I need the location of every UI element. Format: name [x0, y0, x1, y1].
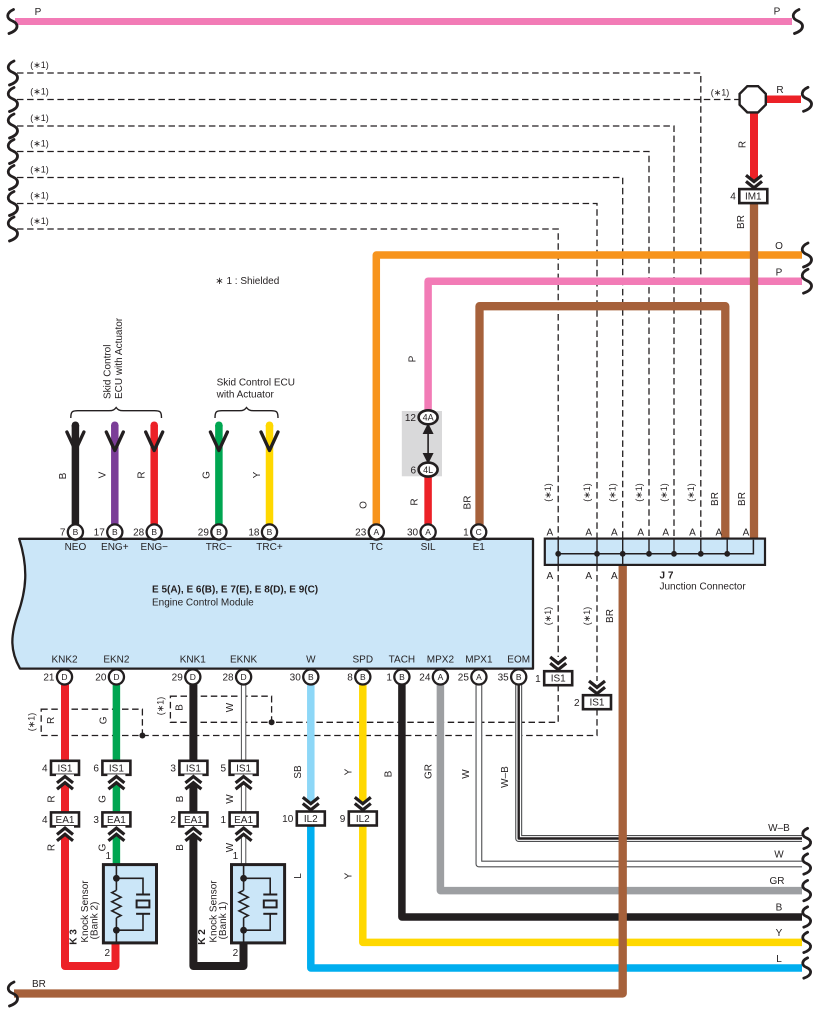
svg-text:(∗1): (∗1) [608, 483, 618, 502]
svg-text:(∗1): (∗1) [543, 607, 553, 626]
connector EA1 pin 1 [230, 812, 258, 826]
svg-text:D: D [190, 672, 196, 682]
chevron into IS1-1 [549, 656, 567, 672]
connector IL2 pin 9 [349, 812, 377, 826]
pin 1(B) TACH [394, 669, 409, 684]
svg-text:IS1: IS1 [109, 763, 124, 774]
svg-text:(Bank 2): (Bank 2) [90, 902, 101, 940]
svg-text:23: 23 [355, 528, 367, 539]
svg-text:Junction Connector: Junction Connector [660, 582, 747, 593]
svg-text:B: B [360, 672, 366, 682]
pin 20(D) EKN2 [109, 669, 124, 684]
svg-text:Skid Control: Skid Control [102, 345, 113, 399]
svg-text:EKNK: EKNK [230, 655, 258, 666]
break symbol right [803, 907, 811, 927]
wire B from TACH [402, 685, 802, 918]
wire G EKN2 to knock sensor K3 [113, 685, 121, 867]
break symbol left dashed [8, 166, 17, 190]
wire BR from E1 to J7 [480, 306, 726, 538]
svg-text:3: 3 [170, 763, 176, 774]
svg-text:P: P [774, 7, 781, 18]
break symbol right [803, 854, 811, 874]
svg-text:E1: E1 [473, 542, 486, 553]
connector EA1 pin 4 [51, 812, 79, 826]
svg-text:B: B [112, 527, 118, 537]
wire Y TRC+ [266, 425, 274, 525]
chevron below EA1 pin 1 [235, 826, 253, 841]
arrowhead wire start [210, 432, 227, 451]
svg-text:IS1: IS1 [236, 763, 251, 774]
svg-text:B: B [308, 672, 314, 682]
wire W from MPX1 [479, 685, 802, 865]
shield box around KNK1/EKNK wires [170, 696, 271, 722]
svg-text:1: 1 [463, 528, 469, 539]
svg-text:W: W [225, 702, 236, 712]
svg-text:Y: Y [344, 768, 355, 775]
wire R from 4L to SIL [424, 474, 432, 525]
svg-text:(∗1): (∗1) [634, 483, 644, 502]
connector EA1 pin 3 [102, 812, 130, 826]
svg-text:12: 12 [405, 413, 417, 424]
svg-text:R: R [776, 85, 783, 96]
svg-text:7: 7 [60, 528, 66, 539]
wire W-B from EOM [519, 685, 802, 839]
connector IS1 pin 2 [583, 695, 611, 709]
svg-text:B: B [516, 672, 522, 682]
wire B KNK1 to knock sensor K2 [193, 685, 243, 967]
svg-text:G: G [97, 795, 108, 803]
break symbol left dashed [8, 192, 17, 216]
svg-text:5: 5 [221, 763, 227, 774]
svg-text:IS1: IS1 [186, 763, 201, 774]
wire shield drain to connector IS1-2 [596, 565, 598, 681]
svg-text:B: B [267, 527, 273, 537]
break symbol right P top [793, 10, 802, 34]
svg-text:A: A [637, 528, 644, 539]
connector IL2 pin 10 [297, 812, 325, 826]
svg-text:R: R [410, 498, 421, 505]
pin 29(D) KNK1 [185, 669, 200, 684]
svg-text:(∗1): (∗1) [30, 113, 49, 123]
pin 24(A) MPX2 [433, 669, 448, 684]
wire O from TC [376, 255, 802, 525]
svg-text:29: 29 [198, 528, 210, 539]
connector IM1 pin 4 [739, 189, 767, 203]
svg-text:EA1: EA1 [56, 815, 75, 826]
svg-text:(∗1): (∗1) [156, 697, 166, 716]
break symbol left dashed [8, 88, 17, 112]
svg-text:(∗1): (∗1) [27, 713, 37, 732]
svg-text:24: 24 [419, 673, 431, 684]
svg-text:(∗1): (∗1) [659, 483, 669, 502]
svg-text:D: D [113, 672, 119, 682]
connector IS1 pin 6 [102, 761, 130, 775]
svg-text:G: G [97, 843, 108, 851]
svg-text:EA1: EA1 [184, 815, 203, 826]
wire P battery top [15, 18, 792, 25]
svg-text:BR: BR [710, 492, 721, 506]
svg-text:(∗1): (∗1) [582, 483, 592, 502]
break symbol left BR bottom [8, 982, 17, 1006]
svg-text:GR: GR [770, 876, 785, 887]
pin 28(B) ENG&#8722; [147, 524, 162, 539]
svg-text:(∗1): (∗1) [30, 87, 49, 97]
svg-text:6: 6 [93, 763, 99, 774]
svg-text:4: 4 [42, 815, 48, 826]
chevron into IM1 [745, 174, 763, 190]
svg-text:9: 9 [340, 814, 346, 825]
svg-text:IS1: IS1 [589, 698, 604, 709]
svg-text:1: 1 [221, 815, 227, 826]
svg-text:O: O [775, 241, 783, 252]
svg-text:Y: Y [252, 471, 263, 478]
svg-text:TRC−: TRC− [206, 542, 233, 553]
svg-text:A: A [438, 672, 444, 682]
brace Skid Control ECU with Actuator (left) [71, 408, 162, 419]
svg-text:A: A [611, 528, 618, 539]
svg-text:B: B [175, 844, 186, 851]
pin 18(B) TRC+ [262, 524, 277, 539]
svg-text:W: W [225, 842, 236, 852]
wire R octagon to IM1 [750, 111, 758, 190]
connector IS1 pin 5 [230, 761, 258, 775]
pin 1(C) E1 [471, 524, 486, 539]
chevron below IS1 pin 6 [107, 774, 125, 789]
pin 30(A) SIL [421, 524, 436, 539]
wire B NEO [72, 425, 80, 525]
brace Skid Control ECU with Actuator (right) [215, 408, 278, 419]
arrowhead wire start [146, 432, 163, 451]
chevron below IS1 pin 3 [184, 774, 202, 789]
svg-text:2: 2 [170, 815, 176, 826]
svg-text:(∗1): (∗1) [711, 88, 730, 98]
arrowhead wire start [106, 432, 123, 451]
svg-text:L: L [776, 954, 782, 965]
svg-text:K 3: K 3 [69, 929, 80, 945]
break symbol left dashed [8, 114, 17, 138]
svg-text:KNK2: KNK2 [51, 655, 78, 666]
pin 30(B) W [303, 669, 318, 684]
connector IS1 pin 3 [179, 761, 207, 775]
break symbol right [803, 958, 811, 978]
shield terminal octagon [740, 86, 766, 112]
svg-text:W: W [774, 850, 784, 861]
wire V ENG+ [111, 425, 119, 525]
svg-text:IL2: IL2 [304, 814, 318, 825]
svg-text:20: 20 [95, 673, 107, 684]
svg-text:B: B [399, 672, 405, 682]
svg-text:R: R [738, 141, 749, 148]
svg-text:1: 1 [386, 673, 392, 684]
svg-text:A: A [585, 571, 592, 582]
svg-text:R: R [137, 471, 148, 478]
svg-text:TACH: TACH [389, 655, 415, 666]
svg-text:ENG+: ENG+ [101, 542, 129, 553]
arrowhead wire start [261, 432, 278, 451]
wire shield drain to connector IS1-1 [557, 565, 559, 657]
svg-text:30: 30 [290, 673, 302, 684]
svg-text:2: 2 [233, 948, 239, 959]
wire shield dashed line 4 [17, 152, 649, 539]
svg-text:Y: Y [344, 872, 355, 879]
pin 17(B) ENG+ [107, 524, 122, 539]
svg-text:MPX1: MPX1 [465, 655, 493, 666]
svg-text:KNK1: KNK1 [180, 655, 207, 666]
svg-text:P: P [35, 7, 42, 18]
svg-text:G: G [99, 716, 110, 724]
connector EA1 pin 2 [179, 812, 207, 826]
wire shield dashed line 3 [17, 126, 674, 539]
svg-text:B: B [216, 527, 222, 537]
svg-text:SPD: SPD [353, 655, 374, 666]
break symbol left dashed [8, 217, 17, 241]
svg-text:8: 8 [347, 673, 353, 684]
pin 7(B) NEO [68, 524, 83, 539]
svg-text:TRC+: TRC+ [256, 542, 283, 553]
svg-text:BR: BR [737, 492, 748, 506]
svg-text:R: R [47, 795, 58, 802]
wire shield dashed line 6 [17, 204, 597, 539]
svg-text:21: 21 [43, 673, 55, 684]
wire L below IL2 [311, 825, 802, 968]
svg-text:4A: 4A [423, 413, 434, 423]
chevron into IL2-9 [354, 797, 372, 813]
svg-text:30: 30 [407, 528, 419, 539]
wire R KNK2 to knock sensor K3 [65, 685, 116, 967]
wire R ENG- [150, 425, 158, 525]
shield box around KNK2/EKN2 wires [41, 709, 142, 735]
svg-text:1: 1 [535, 674, 541, 685]
svg-text:(∗1): (∗1) [30, 165, 49, 175]
knock sensor K3 (Bank 2) [103, 865, 156, 943]
svg-text:17: 17 [94, 528, 106, 539]
svg-text:(∗1): (∗1) [30, 191, 49, 201]
pin 8(B) SPD [355, 669, 370, 684]
svg-text:BR: BR [32, 979, 46, 990]
svg-text:ENG−: ENG− [140, 542, 168, 553]
connector IS1 pin 4 [51, 761, 79, 775]
svg-text:SB: SB [293, 765, 304, 779]
svg-text:A: A [373, 527, 379, 537]
svg-text:18: 18 [248, 528, 260, 539]
svg-text:∗ 1 : Shielded: ∗ 1 : Shielded [215, 276, 279, 287]
connector block 4A/4L [402, 410, 442, 476]
svg-text:IL2: IL2 [356, 814, 370, 825]
wire SB from W pin [307, 685, 315, 813]
svg-text:(∗1): (∗1) [30, 139, 49, 149]
svg-text:EOM: EOM [507, 655, 530, 666]
wire Y from SPD below IL2 [363, 825, 802, 942]
wire shield dashed line 2 [17, 99, 739, 101]
junction connector J7 [545, 539, 765, 593]
svg-text:J 7: J 7 [660, 571, 674, 582]
svg-text:O: O [359, 501, 370, 509]
junction dot shield box B [269, 719, 275, 725]
svg-text:6: 6 [410, 465, 416, 476]
svg-text:29: 29 [172, 673, 184, 684]
wire BR from IM1 to J7 [750, 202, 758, 539]
svg-text:G: G [201, 471, 212, 479]
chevron below IS1 pin 4 [56, 774, 74, 789]
svg-text:A: A [611, 571, 618, 582]
pin 28(D) EKNK [236, 669, 251, 684]
svg-text:W: W [461, 769, 472, 779]
junction dot shield box A [139, 733, 145, 739]
knock sensor K2 (Bank 1) [232, 865, 285, 943]
svg-text:EA1: EA1 [234, 815, 253, 826]
pin 25(A) MPX1 [471, 669, 486, 684]
svg-text:IS1: IS1 [57, 763, 72, 774]
svg-text:(∗1): (∗1) [543, 483, 553, 502]
wire shield dashed line 1 [17, 73, 701, 539]
svg-text:BR: BR [736, 215, 747, 229]
svg-text:MPX2: MPX2 [427, 655, 455, 666]
svg-text:BR: BR [463, 496, 474, 510]
svg-text:A: A [585, 528, 592, 539]
svg-text:B: B [151, 527, 157, 537]
break symbol right [802, 269, 811, 293]
wire GR from MPX2 [440, 685, 802, 891]
svg-text:with Actuator: with Actuator [216, 390, 275, 401]
svg-text:B: B [175, 795, 186, 802]
svg-text:K 2: K 2 [197, 929, 208, 945]
connector IS1 pin 1 [544, 671, 572, 685]
ECU E5-E9 Engine Control Module [12, 539, 533, 669]
svg-text:A: A [689, 528, 696, 539]
svg-text:A: A [547, 571, 554, 582]
break symbol right [803, 932, 811, 952]
svg-text:L: L [293, 873, 304, 879]
svg-text:Y: Y [776, 928, 783, 939]
chevron below EA1 pin 2 [184, 826, 202, 841]
chevron into IL2-10 [302, 797, 320, 813]
svg-text:A: A [662, 528, 669, 539]
break symbol left dashed [8, 140, 17, 164]
wire Y from SPD pin [359, 685, 367, 813]
chevron below EA1 pin 4 [56, 826, 74, 841]
svg-text:B: B [383, 770, 394, 777]
svg-text:A: A [716, 528, 723, 539]
svg-text:(∗1): (∗1) [686, 483, 696, 502]
svg-text:Skid Control ECU: Skid Control ECU [217, 378, 295, 389]
svg-text:A: A [547, 528, 554, 539]
wire shield dashed line 5 [17, 178, 623, 539]
svg-text:E 5(A), E 6(B), E 7(E), E 8(D): E 5(A), E 6(B), E 7(E), E 8(D), E 9(C) [152, 585, 318, 596]
svg-text:3: 3 [93, 815, 99, 826]
svg-text:(∗1): (∗1) [30, 216, 49, 226]
svg-text:IS1: IS1 [551, 674, 566, 685]
svg-text:Engine Control Module: Engine Control Module [152, 598, 254, 609]
pin 21(D) KNK2 [57, 669, 72, 684]
break symbol right [803, 880, 811, 900]
svg-text:28: 28 [222, 673, 234, 684]
svg-text:4L: 4L [423, 465, 433, 475]
svg-text:W: W [225, 794, 236, 804]
break symbol right [802, 243, 811, 267]
break symbol left P [8, 10, 17, 34]
svg-text:SIL: SIL [421, 542, 436, 553]
svg-text:R: R [47, 844, 58, 851]
wire G TRC- [215, 425, 223, 525]
svg-text:B: B [776, 903, 783, 914]
svg-text:28: 28 [133, 528, 145, 539]
svg-text:V: V [97, 471, 108, 478]
svg-text:IM1: IM1 [745, 192, 762, 203]
wire BR ground bus bottom [14, 565, 623, 994]
svg-text:GR: GR [424, 764, 435, 779]
svg-text:2: 2 [574, 698, 580, 709]
svg-text:10: 10 [282, 814, 294, 825]
pin 29(B) TRC&#8722; [211, 524, 226, 539]
svg-text:D: D [61, 672, 67, 682]
svg-text:A: A [425, 527, 431, 537]
wire shield dashed line 7 [17, 229, 558, 539]
svg-text:(Bank 1): (Bank 1) [218, 902, 229, 940]
pin 23(A) TC [369, 524, 384, 539]
svg-text:25: 25 [458, 673, 470, 684]
svg-text:W–B: W–B [500, 766, 511, 788]
svg-text:2: 2 [104, 948, 110, 959]
svg-text:4: 4 [42, 763, 48, 774]
pin 35(B) EOM [511, 669, 526, 684]
svg-text:TC: TC [370, 542, 383, 553]
svg-text:BR: BR [605, 609, 616, 623]
arrowhead wire start [67, 432, 84, 451]
break symbol right [803, 828, 811, 848]
svg-text:EKN2: EKN2 [103, 655, 130, 666]
svg-text:(∗1): (∗1) [582, 607, 592, 626]
svg-text:B: B [73, 527, 79, 537]
svg-text:4: 4 [730, 192, 736, 203]
svg-text:W: W [306, 655, 316, 666]
svg-text:P: P [776, 268, 783, 279]
break symbol left dashed [8, 61, 17, 85]
svg-text:EA1: EA1 [107, 815, 126, 826]
svg-text:A: A [476, 672, 482, 682]
svg-text:B: B [175, 704, 186, 711]
chevron into IS1-2 [588, 680, 606, 696]
svg-text:35: 35 [498, 673, 510, 684]
wire W EKNK to knock sensor K2 [241, 685, 246, 867]
break symbol right [802, 87, 811, 111]
svg-text:B: B [58, 472, 69, 479]
svg-text:A: A [743, 528, 750, 539]
svg-text:R: R [46, 717, 57, 724]
svg-text:C: C [476, 527, 482, 537]
chevron below IS1 pin 5 [235, 774, 253, 789]
svg-text:ECU with Actuator: ECU with Actuator [114, 317, 125, 399]
wire P from connector 4A [428, 281, 802, 411]
svg-text:NEO: NEO [65, 542, 87, 553]
svg-text:D: D [241, 672, 247, 682]
svg-text:1: 1 [105, 851, 111, 862]
wire R octagon right [766, 96, 801, 104]
chevron below EA1 pin 3 [107, 826, 125, 841]
svg-text:W–B: W–B [768, 823, 790, 834]
svg-text:(∗1): (∗1) [30, 60, 49, 70]
svg-text:P: P [408, 355, 419, 362]
